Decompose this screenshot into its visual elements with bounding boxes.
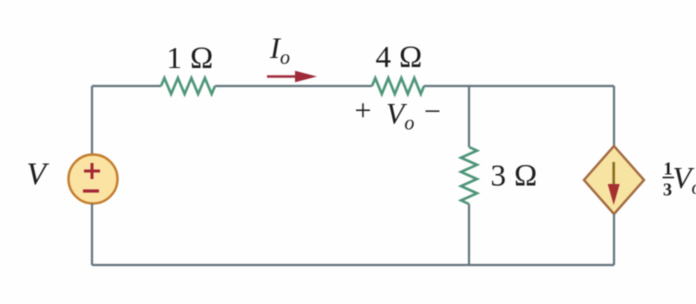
- svg-text:V: V: [27, 156, 50, 192]
- svg-text:4 Ω: 4 Ω: [375, 39, 422, 74]
- svg-text:3: 3: [663, 180, 672, 200]
- wire middle vertical lower: [468, 204, 470, 265]
- wire top-middle segment: [215, 85, 372, 87]
- current arrow Io: [267, 71, 317, 82]
- resistor R3 3-ohm vertical zigzag: [461, 147, 477, 204]
- svg-text:Vo: Vo: [673, 160, 696, 199]
- voltage source V circle: [69, 155, 118, 204]
- resistor R2 4-ohm zigzag: [372, 78, 424, 94]
- polarity label + Vo -: [355, 94, 441, 135]
- svg-text:1: 1: [664, 159, 673, 179]
- svg-text:1 Ω: 1 Ω: [166, 40, 213, 75]
- arrow inside dependent source: [608, 162, 620, 205]
- wire bottom horizontal: [92, 264, 614, 266]
- svg-text:3 Ω: 3 Ω: [490, 158, 537, 193]
- wire right vertical lower: [613, 214, 615, 265]
- resistor R1 1-ohm zigzag: [161, 78, 215, 94]
- wire top-right segment: [424, 85, 614, 87]
- dependent source gain label 1/3 Vo: [663, 159, 696, 200]
- svg-text:Io: Io: [269, 32, 290, 69]
- svg-text:Vo: Vo: [386, 98, 414, 135]
- wire left vertical upper: [91, 86, 93, 155]
- svg-text:+: +: [355, 94, 372, 127]
- wire top-left horizontal segment: [92, 85, 161, 87]
- dependent current source diamond: [584, 146, 644, 214]
- wire middle vertical upper: [468, 86, 470, 147]
- minus mark inside source: [83, 189, 99, 192]
- wire right vertical upper: [613, 86, 615, 146]
- plus mark inside source: [84, 163, 100, 179]
- wire left vertical lower: [91, 204, 93, 266]
- svg-text:−: −: [424, 95, 441, 128]
